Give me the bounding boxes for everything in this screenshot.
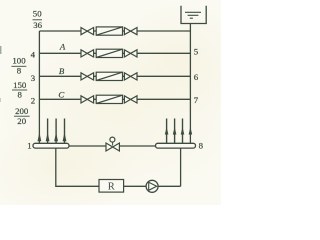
svg-text:1: 1 <box>27 140 31 150</box>
svg-text:8: 8 <box>199 140 204 150</box>
svg-text:3: 3 <box>31 73 36 83</box>
svg-text:2: 2 <box>31 95 35 105</box>
svg-text:5: 5 <box>194 46 199 56</box>
svg-text:A: A <box>59 42 66 52</box>
svg-text:8: 8 <box>17 90 22 100</box>
svg-text:50: 50 <box>33 9 42 19</box>
svg-text:7: 7 <box>194 95 199 105</box>
svg-text:C: C <box>58 90 64 100</box>
svg-text:100: 100 <box>12 56 26 66</box>
svg-text:20: 20 <box>17 116 26 126</box>
svg-text:8: 8 <box>17 66 22 76</box>
svg-text:6: 6 <box>194 72 199 82</box>
svg-text:36: 36 <box>33 20 42 30</box>
svg-text:R: R <box>108 182 115 193</box>
svg-text:4: 4 <box>31 49 36 59</box>
svg-text:B: B <box>59 66 65 76</box>
svg-text:200: 200 <box>15 106 29 116</box>
